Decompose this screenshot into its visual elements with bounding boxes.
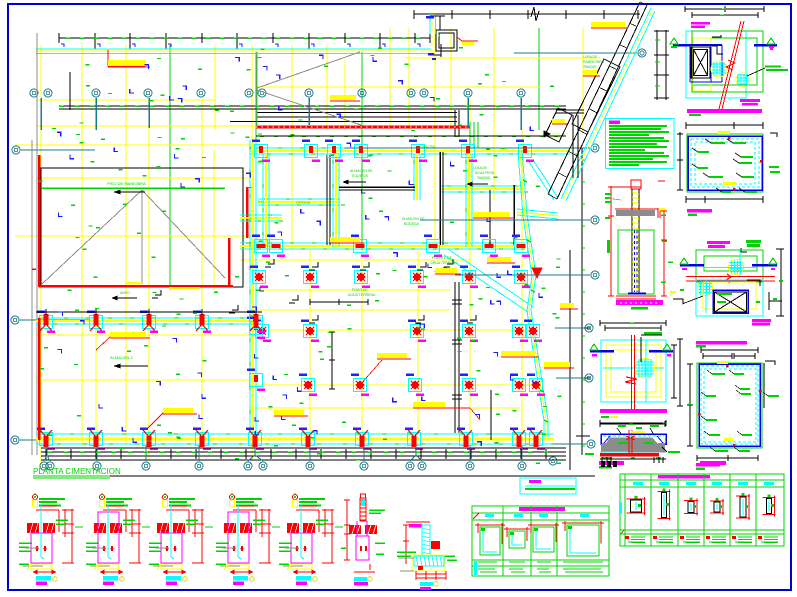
svg-text:ALMACEN 2: ALMACEN 2 (110, 355, 133, 360)
svg-text:EQUIPOS: EQUIPOS (352, 174, 369, 178)
svg-text:LOSA DE: LOSA DE (473, 166, 488, 170)
svg-text:ALMACEN DE: ALMACEN DE (350, 169, 373, 173)
svg-text:PLANTA CIMENTACION: PLANTA CIMENTACION (33, 467, 121, 476)
svg-text:AGUA TERRENA: AGUA TERRENA (348, 293, 376, 297)
svg-text:LOSA DE: LOSA DE (583, 55, 598, 59)
svg-text:POZO DE: POZO DE (352, 288, 368, 292)
svg-text:ANFO: ANFO (120, 291, 130, 295)
svg-text:GRUA TERRENO: GRUA TERRENO (430, 261, 458, 265)
svg-text:AGUA PERA: AGUA PERA (475, 171, 495, 175)
svg-text:S.H.: S.H. (258, 200, 265, 204)
svg-text:BODEGA: BODEGA (404, 222, 420, 226)
svg-text:OFICINA: OFICINA (296, 201, 311, 205)
svg-text:TANQUE: TANQUE (583, 65, 597, 69)
svg-text:TANQUE: TANQUE (477, 176, 491, 180)
svg-text:PISO DE MANIOBRA: PISO DE MANIOBRA (107, 181, 146, 186)
svg-text:PUENTE DE: PUENTE DE (432, 256, 453, 260)
